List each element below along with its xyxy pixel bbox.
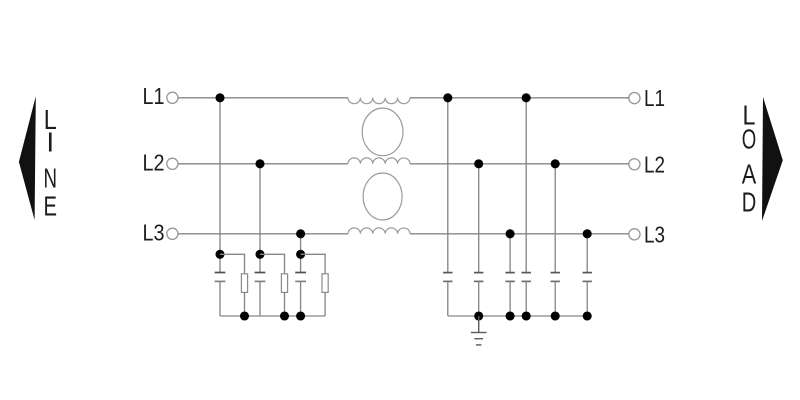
junction dot L1 Y-tap 1: [443, 93, 452, 102]
svg-text:L1: L1: [143, 83, 165, 109]
wire L2 right segment: [410, 163, 629, 165]
choke winding L3: [348, 228, 410, 234]
capacitor C1: [215, 273, 226, 282]
junction dot RC node 1: [215, 250, 224, 259]
resistor R3: [322, 274, 328, 293]
svg-text:A: A: [742, 158, 757, 189]
wire resistor R3 branch: [301, 254, 326, 273]
capacitor CY4: [522, 273, 531, 282]
wire CY3 lower lead: [509, 281, 511, 316]
star-point rail: [220, 315, 325, 317]
junction dot bus 3: [522, 311, 531, 320]
wire R1 lower lead: [244, 292, 246, 316]
wire L2 left segment: [178, 163, 348, 165]
capacitor CY2: [474, 273, 483, 282]
wire left X-cap branch 3 vertical: [300, 234, 302, 273]
choke core circle upper: [362, 108, 403, 156]
junction dot L2 Y-tap 1: [474, 159, 483, 168]
junction dot bus 4: [551, 311, 560, 320]
capacitor CY3: [505, 273, 514, 282]
capacitor CY6: [583, 273, 592, 282]
resistor R1: [241, 274, 247, 293]
LOAD direction arrow: [762, 97, 783, 221]
terminal circle L3 left: [167, 228, 178, 239]
junction dot bus 1: [474, 311, 483, 320]
wire CY4 lower lead: [525, 281, 527, 316]
svg-text:L3: L3: [143, 219, 165, 245]
junction dot L3 Y-tap 2: [583, 229, 592, 238]
wire resistor R1 branch: [220, 254, 245, 273]
svg-text:I: I: [46, 127, 54, 158]
junction dot L1 Y-tap 2: [522, 93, 531, 102]
junction dot RC node 3: [296, 250, 305, 259]
capacitor CY1: [443, 273, 452, 282]
wire C1 lower lead: [219, 281, 221, 316]
label L3 left: [143, 219, 165, 245]
ground bus: [448, 315, 587, 317]
terminal circle L2 left: [167, 158, 178, 169]
wire Y-cap 6 vertical: [586, 234, 588, 273]
wire left X-cap branch 1 vertical: [219, 98, 221, 273]
svg-text:O: O: [742, 123, 757, 154]
LOAD label: [742, 100, 757, 218]
junction dot bus 2: [506, 311, 515, 320]
wire Y-cap 3 vertical: [509, 234, 511, 273]
capacitor C3: [295, 273, 306, 282]
junction dot rail R2: [280, 311, 289, 320]
svg-text:L3: L3: [644, 221, 665, 247]
wire Y-cap 2 vertical: [478, 164, 480, 273]
junction dot L3 tap: [296, 229, 305, 238]
terminal circle L1 right: [629, 93, 640, 104]
wire CY5 lower lead: [554, 281, 556, 316]
wire CY6 lower lead: [586, 281, 588, 316]
junction dot bus 5: [583, 311, 592, 320]
wire Y-cap 1 vertical: [447, 98, 449, 273]
wire L1 left segment: [178, 97, 348, 99]
label L1 right: [644, 85, 665, 111]
junction dot RC node 2: [255, 250, 264, 259]
junction dot L2 tap: [255, 159, 264, 168]
LINE label: [44, 104, 58, 222]
wire Y-cap 5 vertical: [554, 164, 556, 273]
label L2 right: [644, 151, 665, 177]
junction dot L3 Y-tap 1: [506, 229, 515, 238]
wire resistor R2 branch: [260, 254, 285, 273]
choke winding L2: [348, 158, 410, 164]
junction dot L2 Y-tap 2: [551, 159, 560, 168]
svg-text:N: N: [44, 162, 58, 193]
svg-text:L1: L1: [644, 85, 665, 111]
terminal circle L2 right: [629, 159, 640, 170]
capacitor C2: [255, 273, 266, 282]
svg-text:L2: L2: [143, 149, 165, 175]
label L1 left: [143, 83, 165, 109]
svg-text:E: E: [44, 191, 58, 222]
wire left X-cap branch 2 vertical: [259, 164, 261, 273]
junction dot rail R1: [240, 311, 249, 320]
wire L3 left segment: [178, 233, 348, 235]
wire R2 lower lead: [284, 292, 286, 316]
wire R3 lower lead: [324, 292, 326, 316]
junction dot rail C3: [296, 311, 305, 320]
wire L1 right segment: [410, 97, 629, 99]
terminal circle L3 right: [629, 229, 640, 240]
capacitor CY5: [551, 273, 560, 282]
wire CY1 lower lead: [447, 281, 449, 316]
wire Y-cap 4 vertical: [525, 98, 527, 273]
svg-text:D: D: [742, 186, 757, 217]
wire C3 lower lead: [300, 281, 302, 316]
wire CY2 lower lead: [478, 281, 480, 316]
ground symbol: [471, 316, 487, 345]
label L2 left: [143, 149, 165, 175]
choke core circle lower: [363, 173, 402, 220]
wire C2 lower lead: [259, 281, 261, 316]
LINE direction arrow: [19, 96, 36, 220]
resistor R2: [281, 274, 287, 293]
svg-text:L2: L2: [644, 151, 665, 177]
terminal circle L1 left: [167, 92, 178, 103]
label L3 right: [644, 221, 665, 247]
wire L3 right segment: [410, 233, 629, 235]
choke winding L1: [348, 98, 410, 104]
junction dot L1 tap: [215, 93, 224, 102]
